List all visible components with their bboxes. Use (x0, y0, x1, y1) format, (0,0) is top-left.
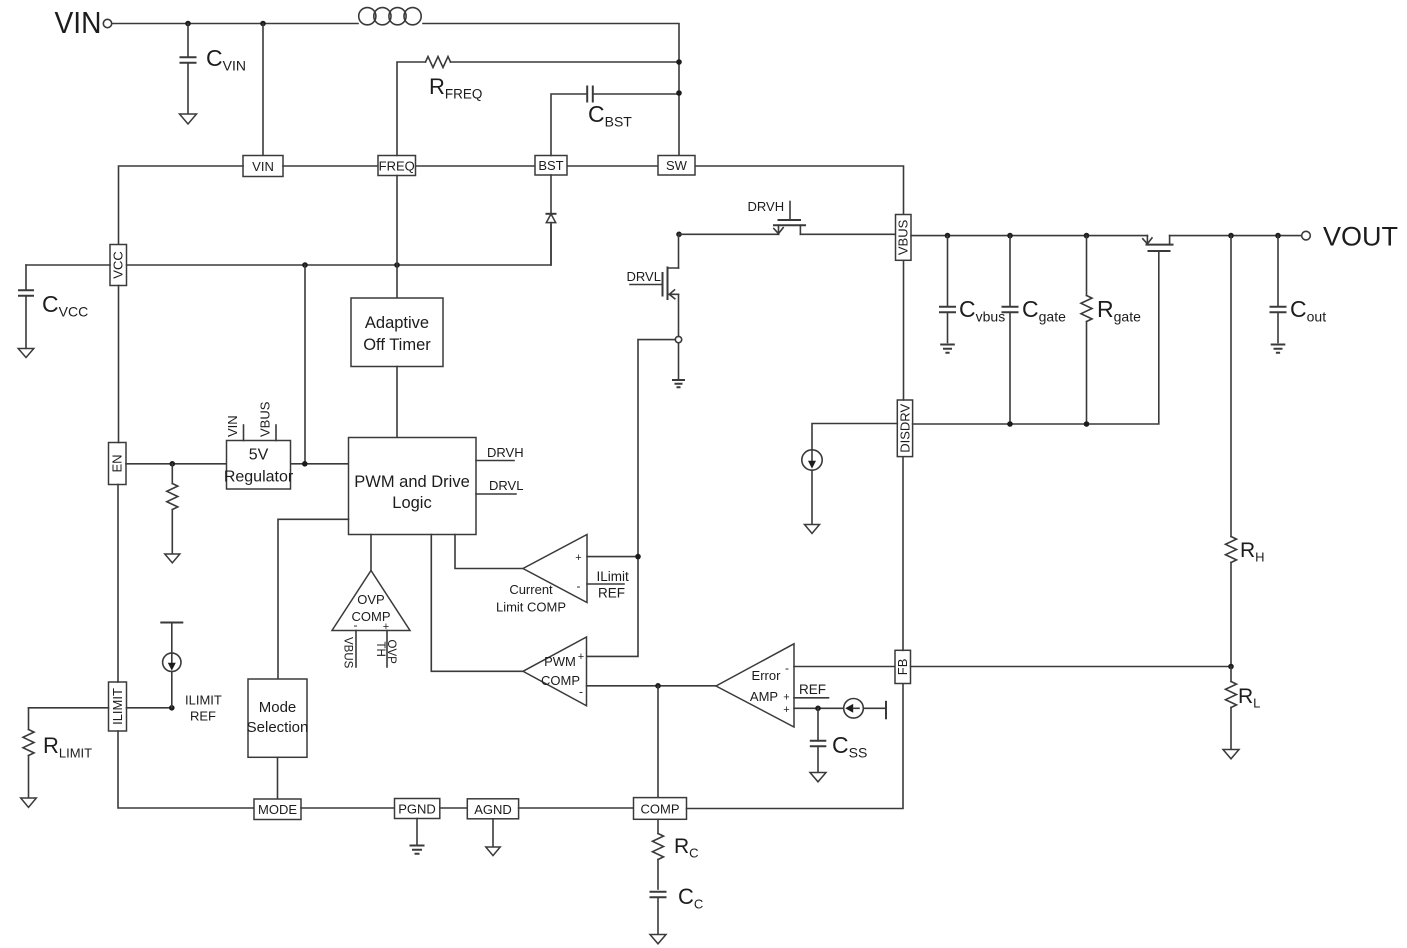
wire bottom rail MODE-PGND (301, 807, 395, 809)
resistor Rgate (1081, 236, 1141, 424)
svg-text:COMP: COMP (541, 673, 580, 688)
svg-text:VOUT: VOUT (1323, 222, 1398, 252)
svg-text:REF: REF (598, 586, 625, 601)
wire VIN pin drop (262, 24, 264, 156)
svg-text:RL: RL (1238, 685, 1260, 711)
op-amp Current Limit COMP (496, 535, 587, 615)
pin BST (535, 156, 567, 176)
pin AGND (467, 799, 518, 819)
ground below RLIMIT (21, 798, 37, 807)
wire DISDRV up to VBUS (903, 260, 905, 400)
junction node Rgate tap (1084, 233, 1090, 239)
junction node Rgate bottom (1084, 421, 1090, 427)
pin FREQ (378, 156, 416, 176)
svg-text:DRVH: DRVH (748, 199, 785, 214)
svg-text:RC: RC (674, 835, 699, 861)
svg-text:-: - (577, 579, 581, 593)
wire FREQ drop to timer (396, 176, 398, 299)
svg-text:VBUS: VBUS (258, 401, 273, 437)
wire bubble to ground (678, 343, 680, 379)
svg-text:RFREQ: RFREQ (429, 74, 482, 102)
svg-text:+: + (578, 651, 584, 663)
svg-text:Rgate: Rgate (1097, 296, 1141, 325)
svg-text:+: + (783, 692, 789, 704)
resistor RLIMIT (23, 708, 92, 797)
junction node at CVIN tap (185, 21, 191, 27)
wire VIN top rail (112, 24, 679, 156)
svg-text:Error: Error (752, 668, 782, 683)
svg-text:Current: Current (509, 582, 553, 597)
svg-text:MODE: MODE (258, 802, 297, 817)
wire timer to PWM block (396, 367, 398, 438)
wire DRVH to VBUS pin (800, 233, 895, 235)
wire AGND stub (492, 819, 494, 846)
svg-text:REF: REF (190, 709, 216, 724)
wire CLC plus input (587, 556, 638, 558)
inductor (359, 8, 422, 25)
wire ILIMIT box to bottom rail (118, 731, 254, 808)
block 5V Regulator (224, 441, 294, 490)
junction node EN resistor tap (170, 461, 176, 467)
ground below EN resistor (165, 554, 180, 563)
pin PGND (395, 799, 440, 819)
capacitor Cvbus (939, 236, 1005, 343)
svg-text:AMP: AMP (750, 689, 778, 704)
svg-text:DRVL: DRVL (489, 478, 523, 493)
svg-text:PGND: PGND (398, 802, 436, 817)
svg-text:CC: CC (678, 884, 703, 912)
current source ILIMIT REF (160, 623, 183, 708)
svg-text:CVIN: CVIN (206, 45, 246, 74)
junction node VCC rail x305 (302, 262, 308, 268)
wire CLC minus input ILimit REF bar (587, 583, 624, 585)
ground below Cout (1271, 345, 1286, 353)
svg-text:REF: REF (799, 682, 826, 697)
svg-text:+: + (575, 552, 581, 564)
ground below RL (1223, 750, 1239, 759)
resistor RFREQ (397, 57, 679, 156)
svg-text:FB: FB (895, 659, 910, 676)
svg-text:ILIMIT: ILIMIT (185, 693, 222, 708)
svg-text:RH: RH (1240, 539, 1265, 565)
wire VCC rail drop to EN wire (304, 265, 306, 464)
pin FB (895, 650, 911, 683)
junction node COMP drop (655, 683, 661, 689)
capacitor CBST (551, 86, 679, 156)
svg-text:ILIMIT: ILIMIT (110, 688, 125, 725)
junction node FB divider (1228, 664, 1234, 670)
current source soft start (844, 699, 886, 720)
wire ILIMIT row (29, 707, 172, 709)
wire VCC box to EN box (118, 286, 120, 443)
svg-text:-: - (785, 661, 789, 675)
wire VCC rail (26, 225, 551, 266)
pin MODE (254, 799, 301, 820)
node VIN terminal (55, 5, 112, 40)
svg-text:SW: SW (666, 158, 688, 173)
junction node CLC plus tap (635, 554, 641, 560)
current source DISDRV (802, 450, 822, 524)
wire Error AMP minus to FB (794, 666, 895, 668)
wire PWM COMP apex to PWM block (431, 535, 523, 672)
svg-text:ILimit: ILimit (597, 569, 630, 584)
svg-text:CSS: CSS (832, 732, 867, 761)
svg-text:Logic: Logic (392, 494, 431, 512)
pin stub VIN on 5V regulator (243, 425, 245, 441)
wire gate bottom rail (913, 251, 1159, 424)
wire OVP input stub OVP TH (386, 631, 388, 668)
junction node Cgate tap (1007, 233, 1013, 239)
svg-text:Cout: Cout (1290, 296, 1326, 325)
node VOUT terminal (1302, 222, 1398, 252)
pin VBUS (896, 215, 912, 261)
ground below DRVL (672, 380, 685, 387)
svg-text:Off Timer: Off Timer (363, 336, 431, 354)
junction node EN row x305 (302, 461, 308, 467)
ground below CC (650, 935, 666, 944)
transistor DRVH (748, 199, 807, 234)
svg-text:AGND: AGND (474, 802, 512, 817)
wire OVP input stub VBUS (355, 631, 357, 668)
svg-text:Cgate: Cgate (1022, 296, 1066, 325)
svg-text:VBUS: VBUS (342, 637, 354, 669)
capacitor CC (650, 884, 704, 934)
wire FB up to DISDRV (902, 457, 904, 651)
wire bottom rail PGND-AGND (440, 807, 468, 809)
resistor RC (653, 819, 699, 889)
wire VBUS output rail (911, 235, 1302, 237)
svg-text:+: + (383, 621, 389, 633)
wire COMP to FB column (687, 684, 904, 809)
resistor RL (1226, 667, 1261, 749)
wire DISDRV to current source (812, 424, 897, 450)
junction node SW column (676, 232, 682, 238)
ground below CVCC (18, 349, 34, 358)
svg-text:PWM: PWM (544, 654, 576, 669)
transistor output FET (1143, 236, 1174, 251)
transistor DRVL (627, 267, 679, 301)
svg-text:DRVH: DRVH (487, 445, 524, 460)
svg-text:Selection: Selection (247, 719, 309, 736)
svg-text:DRVL: DRVL (627, 269, 661, 284)
wire pin row VIN-FREQ (283, 165, 378, 167)
block Mode Selection (247, 679, 309, 757)
junction node Cgate bottom (1007, 421, 1013, 427)
wire Mode Selection to MODE pin (277, 757, 279, 799)
pin stub VBUS on 5V regulator (275, 425, 277, 441)
junction node at VIN pin tap (260, 21, 266, 27)
svg-text:Adaptive: Adaptive (365, 314, 429, 332)
wire pin row left (119, 166, 244, 245)
junction node Cout tap (1275, 233, 1281, 239)
block PWM and Drive Logic (349, 438, 477, 535)
svg-text:PWM and Drive: PWM and Drive (354, 473, 470, 491)
svg-text:5V: 5V (249, 447, 269, 464)
svg-text:VIN: VIN (252, 159, 274, 174)
svg-text:OVP: OVP (357, 592, 384, 607)
svg-text:Mode: Mode (259, 699, 297, 716)
pin EN (109, 443, 127, 485)
diode below BST (546, 175, 557, 265)
svg-text:COMP: COMP (641, 801, 680, 816)
wire PWM COMP output to Error AMP (587, 685, 717, 687)
ground below Cvbus (940, 345, 955, 353)
pin VIN (243, 156, 283, 177)
resistor below EN wire (167, 464, 178, 553)
svg-text:Regulator: Regulator (224, 469, 294, 486)
svg-text:VBUS: VBUS (896, 219, 911, 255)
wire pin row BST-SW (567, 165, 658, 167)
wire PGND stub (416, 819, 418, 845)
resistor RH (1226, 236, 1265, 667)
junction node RFREQ at SW column (676, 59, 682, 65)
svg-text:Limit COMP: Limit COMP (496, 600, 566, 615)
capacitor Cgate (1002, 236, 1067, 424)
capacitor CSS (810, 708, 868, 771)
wire FB to divider (911, 666, 1232, 668)
pin ILIMIT (109, 682, 127, 731)
svg-text:CBST: CBST (588, 101, 632, 130)
ground below CSS (810, 773, 826, 782)
pin VCC (110, 245, 127, 286)
pin stub DRVH on PWM block (476, 445, 524, 461)
pin COMP (634, 798, 687, 820)
junction node VCC rail x397 (394, 262, 400, 268)
wire drop to COMP pin (657, 686, 659, 798)
pin SW (658, 156, 695, 176)
node DRVL source bubble (675, 336, 681, 342)
svg-text:VIN: VIN (55, 5, 102, 40)
svg-text:RLIMIT: RLIMIT (43, 733, 92, 761)
svg-text:OVP: OVP (385, 640, 397, 665)
ground below AGND (486, 847, 500, 856)
block Adaptive Off Timer (351, 298, 443, 367)
wire CLC apex to PWM block (455, 535, 523, 569)
ground below CVIN (180, 114, 197, 124)
svg-text:FREQ: FREQ (379, 158, 415, 173)
svg-text:DISDRV: DISDRV (897, 404, 912, 453)
svg-text:VCC: VCC (111, 251, 126, 278)
op-amp OVP COMP (332, 571, 410, 634)
junction node Cvbus tap (945, 233, 951, 239)
svg-text:Cvbus: Cvbus (959, 296, 1005, 325)
svg-text:TH: TH (374, 642, 386, 657)
net label ILimit REF (597, 569, 630, 601)
svg-text:+: + (783, 704, 789, 716)
junction node CSS tap (815, 706, 821, 712)
ground arrow below DISDRV source (805, 525, 820, 534)
svg-text:BST: BST (538, 158, 563, 173)
ground below PGND (410, 846, 425, 854)
wire OVP apex to PWM block (370, 535, 372, 571)
junction node ILIMIT source tap (169, 705, 175, 711)
svg-text:CVCC: CVCC (42, 291, 88, 320)
op-amp Error AMP (716, 644, 794, 727)
wire bottom rail AGND-COMP (519, 807, 634, 809)
wire EN row (126, 463, 349, 465)
wire EN box to ILIMIT box (117, 485, 119, 683)
wire soft start input (794, 707, 844, 709)
wire Mode Selection to PWM block (278, 519, 349, 679)
pin DISDRV (897, 400, 912, 457)
net label ILIMIT REF (185, 693, 222, 724)
capacitor CVCC (18, 265, 88, 348)
capacitor CVIN (180, 24, 246, 114)
wire pin row FREQ-BST (416, 165, 536, 167)
wire bubble to comparator column (587, 340, 675, 657)
wire pin row SW-VBUS (695, 166, 904, 215)
junction node RH tap (1228, 233, 1234, 239)
pin stub DRVL on PWM block (476, 478, 523, 494)
op-amp PWM COMP (523, 637, 587, 706)
svg-text:VIN: VIN (225, 415, 240, 437)
svg-text:-: - (579, 685, 583, 699)
svg-text:EN: EN (110, 454, 125, 472)
wire REF input bar (794, 697, 829, 699)
capacitor Cout (1270, 236, 1327, 343)
junction node CBST at SW column (676, 90, 682, 96)
wire SW node through DRVL (678, 234, 680, 336)
wire SW node to DRVH (679, 233, 779, 235)
